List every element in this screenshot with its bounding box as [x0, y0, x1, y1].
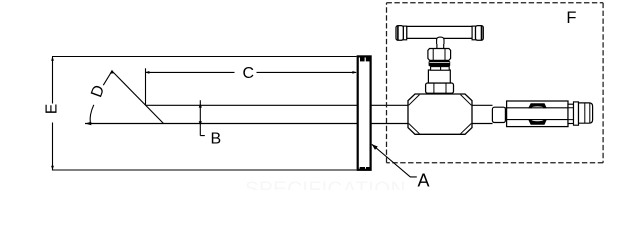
dimension E arrow top — [51, 56, 54, 60]
spacer band lines — [568, 108, 574, 120]
dimension B line — [200, 100, 205, 135]
dimension E extension top line — [52, 56, 357, 58]
svg-text:B: B — [211, 131, 222, 148]
union hex shade bottom — [528, 120, 547, 125]
svg-text:A: A — [418, 171, 430, 190]
dimension C extension vertical — [145, 68, 147, 105]
bonnet collar divider — [440, 67, 442, 71]
wire probe bottom line — [85, 123, 408, 125]
wire probe top line — [146, 104, 409, 106]
end nut — [579, 103, 593, 123]
leader A line — [372, 144, 417, 177]
union main body — [507, 101, 568, 127]
leader A arrow — [372, 144, 378, 150]
flange bottom weld marks — [360, 167, 365, 170]
probe tip arrow — [85, 122, 91, 125]
svg-text:SPECIFICATION: SPECIFICATION — [245, 178, 406, 191]
packing black band — [429, 61, 451, 66]
handle ring left — [403, 26, 406, 40]
valve body corner facet lines — [409, 95, 472, 134]
svg-text:F: F — [566, 9, 576, 27]
gland hex — [428, 49, 451, 61]
gland hex facets — [433, 49, 445, 61]
bonnet collar strip — [431, 67, 450, 71]
spacer — [568, 104, 574, 123]
handle bar — [407, 26, 472, 38]
flange top weld marks — [360, 57, 365, 62]
bonnet hex facets — [434, 83, 446, 93]
svg-text:C: C — [243, 65, 255, 82]
union hex shade top — [528, 103, 547, 108]
probe tip arc — [90, 105, 94, 123]
handle cap left — [396, 26, 403, 41]
flange A body — [358, 56, 371, 169]
ring washer — [574, 102, 579, 125]
end nut facet — [585, 103, 590, 123]
boundary box F (dashed) — [387, 2, 604, 4]
dimension E extension bottom line — [52, 169, 357, 171]
handle cap left inner line — [397, 26, 399, 40]
dimension C arrow left — [145, 71, 150, 74]
bonnet upper rect — [428, 70, 450, 83]
dimension B arrow top — [199, 103, 202, 107]
union inner band lines — [505, 108, 578, 120]
handle cap right — [476, 26, 484, 41]
handle ring right — [472, 26, 475, 40]
dimension E arrow bottom — [51, 166, 54, 170]
stem dome — [437, 37, 444, 44]
svg-text:E: E — [44, 104, 61, 114]
dimension E line — [52, 57, 54, 171]
stem — [437, 40, 444, 49]
handle cap right inner line — [481, 26, 483, 40]
outlet collar — [492, 107, 505, 122]
dimension D leader — [103, 71, 163, 123]
dimension D arrow — [110, 70, 114, 74]
valve body octagon — [408, 94, 472, 134]
right pipe — [472, 105, 493, 123]
dimension C arrow right — [352, 71, 357, 74]
bonnet hex — [426, 83, 454, 93]
packing white sliver — [430, 62, 450, 64]
dimension B arrow bottom — [199, 121, 202, 125]
dimension C line — [146, 71, 357, 73]
